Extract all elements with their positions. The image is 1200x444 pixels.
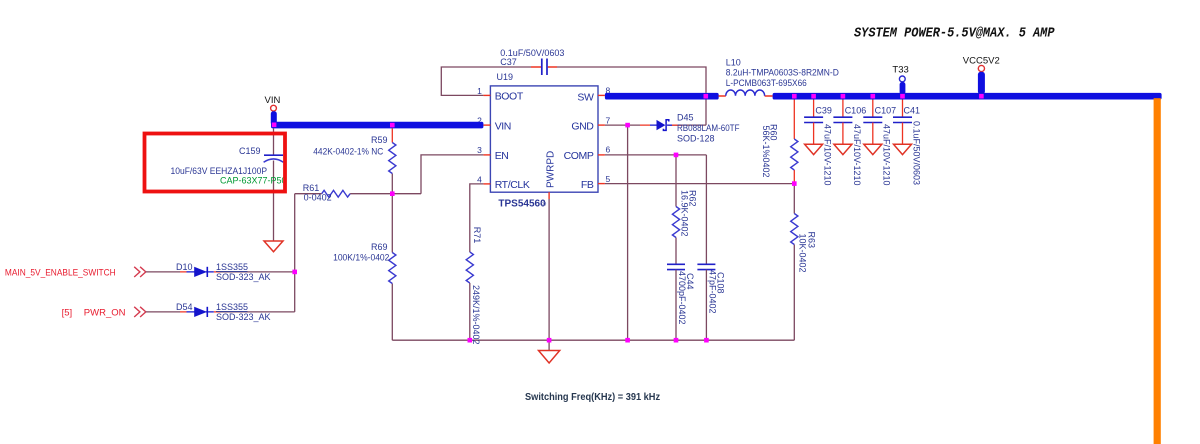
- wire EN net with riser: [350, 155, 483, 194]
- svg-text:D10: D10: [176, 262, 193, 272]
- svg-text:PWR_ON: PWR_ON: [84, 308, 126, 319]
- svg-text:D45: D45: [677, 113, 694, 123]
- svg-text:R69: R69: [371, 242, 388, 252]
- node VIN terminal: [265, 95, 281, 125]
- svg-text:SOD-323_AK: SOD-323_AK: [216, 312, 271, 322]
- wire COMP net: [605, 154, 707, 156]
- svg-text:10K-0402: 10K-0402: [798, 234, 808, 273]
- svg-text:MAIN_5V_ENABLE_SWITCH: MAIN_5V_ENABLE_SWITCH: [5, 268, 116, 279]
- wire FB net: [605, 183, 794, 185]
- svg-text:47pF-0402: 47pF-0402: [707, 270, 717, 314]
- svg-text:C41: C41: [904, 106, 921, 116]
- junction GND branch on ground rail: [625, 338, 630, 343]
- svg-text:1: 1: [477, 86, 482, 96]
- svg-text:T33: T33: [892, 65, 908, 76]
- resistor R63: [791, 184, 817, 341]
- svg-text:SOD-128: SOD-128: [677, 134, 715, 144]
- svg-text:SYSTEM POWER-5.5V@MAX. 5 AMP: SYSTEM POWER-5.5V@MAX. 5 AMP: [854, 27, 1055, 42]
- svg-text:47uF/10V-1210: 47uF/10V-1210: [882, 124, 892, 186]
- svg-text:100K/1%-0402: 100K/1%-0402: [333, 253, 389, 263]
- wire SW bus right: [773, 93, 1162, 100]
- svg-text:SW: SW: [577, 91, 594, 103]
- svg-text:47uF/10V-1210: 47uF/10V-1210: [823, 124, 833, 186]
- svg-text:BOOT: BOOT: [495, 91, 524, 103]
- wire GND pin7 net: [605, 100, 706, 126]
- resistor R69: [333, 194, 396, 341]
- junction PWRPD on ground rail: [547, 338, 552, 343]
- highlight box around C159: [145, 134, 286, 192]
- svg-text:CAP-63X77-P50: CAP-63X77-P50: [220, 175, 287, 185]
- svg-text:1SS355: 1SS355: [216, 262, 248, 272]
- junction C37/D45 cathode on SW bus: [704, 94, 709, 99]
- svg-text:U19: U19: [497, 72, 514, 82]
- svg-text:R71: R71: [472, 227, 482, 244]
- junction GND branch on pin7 net: [625, 123, 630, 128]
- junction R71 on ground rail: [468, 338, 473, 343]
- svg-text:D54: D54: [176, 302, 193, 312]
- svg-text:C106: C106: [845, 106, 867, 116]
- junction R60 on SW bus: [792, 94, 797, 99]
- capacitor C106 branch: [833, 100, 866, 186]
- svg-text:GND: GND: [571, 120, 594, 132]
- resistor R62 branch: [672, 155, 697, 264]
- svg-text:TPS54560: TPS54560: [498, 198, 546, 209]
- svg-text:C37: C37: [500, 57, 517, 67]
- svg-text:Switching Freq(KHz) = 391 kHz: Switching Freq(KHz) = 391 kHz: [525, 392, 660, 404]
- junction R59/R61/R69 node: [390, 191, 395, 196]
- node VCC5V2 port: [963, 55, 1000, 94]
- diode D10: [176, 262, 271, 282]
- resistor R59: [313, 128, 396, 193]
- svg-text:56K-1%0402: 56K-1%0402: [761, 126, 771, 178]
- capacitor C108 branch: [697, 155, 725, 340]
- wire VIN bus: [271, 122, 483, 129]
- svg-text:5: 5: [606, 174, 611, 184]
- svg-text:cb: cb: [540, 202, 547, 208]
- svg-text:4700pF-0402: 4700pF-0402: [677, 271, 687, 325]
- svg-text:R59: R59: [371, 135, 388, 145]
- svg-text:VIN: VIN: [265, 95, 281, 106]
- resistor R60: [761, 100, 798, 184]
- svg-text:7: 7: [606, 115, 611, 125]
- svg-text:FB: FB: [581, 179, 594, 191]
- wire D54 row: [146, 311, 180, 313]
- capacitor C41 branch: [893, 100, 921, 186]
- svg-text:RT/CLK: RT/CLK: [495, 179, 530, 191]
- junction C106 on SW bus: [841, 94, 846, 99]
- node PWR_ON: [62, 307, 146, 319]
- svg-text:8.2uH-TMPA0603S-8R2MN-D: 8.2uH-TMPA0603S-8R2MN-D: [726, 68, 839, 78]
- svg-text:6: 6: [606, 145, 611, 155]
- capacitor C44: [667, 264, 695, 340]
- resistor R61: [295, 183, 350, 203]
- svg-text:C159: C159: [239, 146, 261, 156]
- svg-text:C39: C39: [815, 106, 832, 116]
- svg-text:R61: R61: [303, 183, 320, 193]
- node T33 test point: [892, 65, 908, 95]
- junction D10 to EN riser: [292, 270, 297, 275]
- svg-text:249K/1%-0402: 249K/1%-0402: [471, 285, 481, 345]
- junction C39 on SW bus: [811, 94, 816, 99]
- wire left riser to R61 line: [294, 194, 296, 312]
- resistor R71 branch from RT/CLK: [466, 184, 483, 345]
- svg-text:PWRPD: PWRPD: [546, 151, 557, 188]
- svg-text:442K-0402-1% NC: 442K-0402-1% NC: [313, 146, 383, 156]
- wire SW bus left: [605, 93, 719, 100]
- diode D54: [176, 302, 271, 322]
- svg-text:3: 3: [477, 145, 482, 155]
- junction VIN stub to bus: [272, 123, 277, 128]
- junction C107 on SW bus: [871, 94, 876, 99]
- wire PWRPD to rail: [548, 199, 550, 340]
- ground symbol C159: [264, 241, 283, 252]
- capacitor C37: [500, 48, 564, 75]
- svg-text:4: 4: [477, 174, 482, 184]
- svg-text:C107: C107: [875, 106, 897, 116]
- svg-text:COMP: COMP: [564, 150, 594, 162]
- node MAIN_5V_ENABLE_SWITCH: [5, 267, 146, 279]
- svg-text:L-PCMB063T-695X66: L-PCMB063T-695X66: [726, 78, 807, 88]
- wire GND branch down to rail: [627, 125, 629, 340]
- svg-text:EN: EN: [495, 150, 509, 162]
- svg-text:SOD-323_AK: SOD-323_AK: [216, 272, 271, 282]
- junction C41/T33 on SW bus: [900, 94, 905, 99]
- svg-text:RB088LAM-60TF: RB088LAM-60TF: [677, 123, 740, 133]
- junction R59 top on VIN bus: [390, 123, 395, 128]
- junction C108 on ground rail: [704, 338, 709, 343]
- wire D45 leads: [640, 124, 681, 126]
- capacitor C107 branch: [863, 100, 896, 186]
- svg-text:L10: L10: [726, 58, 741, 68]
- junction FB/R60/R63 node: [792, 181, 797, 186]
- IC U19 TPS54560 regulator: [490, 72, 598, 209]
- diode D45 (schottky): [657, 113, 740, 144]
- capacitor C39 branch: [804, 100, 832, 186]
- junction R62 on COMP net: [674, 153, 679, 158]
- capacitor C159 branch: [171, 128, 287, 241]
- wire BOOT loop: [441, 67, 706, 95]
- svg-text:0.1uF/50V/0603: 0.1uF/50V/0603: [911, 121, 921, 185]
- svg-text:0-0402: 0-0402: [304, 193, 332, 203]
- ground symbol main rail: [539, 340, 560, 363]
- wire ground rail: [392, 339, 794, 341]
- svg-text:1SS355: 1SS355: [216, 302, 248, 312]
- junction C44 on ground rail: [674, 338, 679, 343]
- junction VCC5V2 on SW bus: [979, 94, 984, 99]
- svg-text:16.9K-0402: 16.9K-0402: [680, 190, 690, 237]
- wire orange feed down right side: [1154, 98, 1161, 444]
- wire D10 row: [146, 271, 180, 273]
- svg-text:47uF/10V-1210: 47uF/10V-1210: [852, 124, 862, 186]
- svg-text:VIN: VIN: [495, 120, 511, 132]
- inductor L10: [719, 58, 840, 97]
- pin stubs U19: [483, 95, 605, 199]
- svg-text:[5]: [5]: [62, 308, 73, 319]
